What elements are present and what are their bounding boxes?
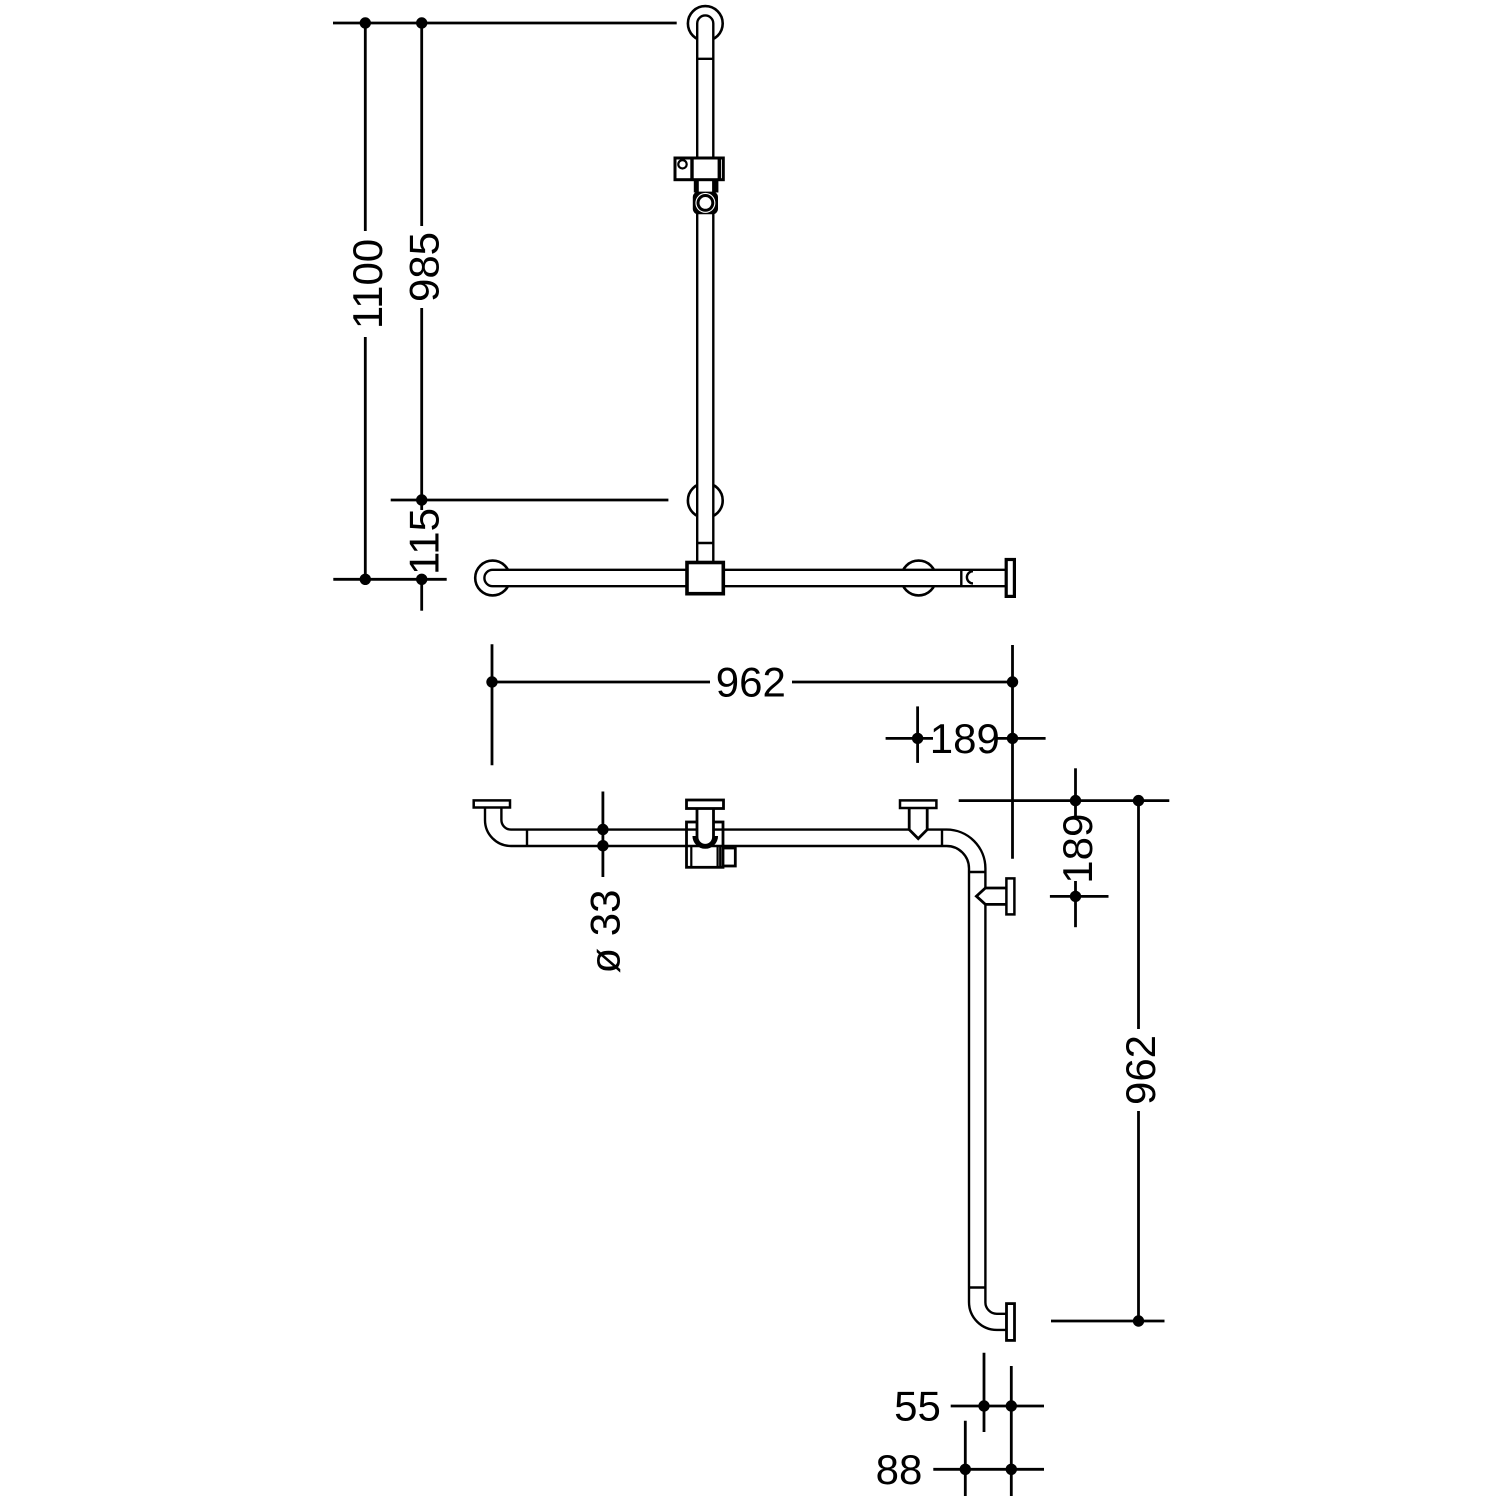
rail joint line above bottom elbow — [969, 1286, 985, 1288]
shower head holder body — [675, 158, 723, 180]
side wall bracket plate (plan) — [1006, 878, 1014, 914]
L-shaped rail tube (plan) — [485, 808, 1007, 1330]
svg-text:189: 189 — [930, 715, 1000, 762]
svg-text:88: 88 — [876, 1446, 923, 1493]
side wall bracket pin (plan) — [976, 888, 1006, 904]
svg-text:985: 985 — [400, 232, 447, 302]
svg-text:962: 962 — [1117, 1035, 1164, 1105]
svg-text:115: 115 — [400, 508, 447, 575]
dimension line 189 vertical — [1050, 768, 1109, 927]
dimension line 962 top — [486, 676, 1018, 687]
dimension line 1100 — [360, 17, 371, 585]
extension line at rail top level — [391, 499, 669, 502]
dimension line 962 vertical — [1133, 795, 1144, 1327]
rail joint line below corner — [969, 871, 985, 873]
wall flange circle on horizontal rail — [901, 561, 936, 596]
extension tick at rail centerline — [333, 578, 446, 581]
holder swivel joint — [693, 192, 718, 215]
horizontal rail inner tube cap arc — [967, 571, 973, 583]
bottom wall plate (plan) — [1007, 1304, 1015, 1341]
holder neck bars — [694, 180, 719, 193]
dimension line 115 — [416, 500, 427, 611]
dimension line 88 — [933, 1421, 1044, 1496]
vertical rail tube — [697, 15, 713, 562]
dimension line 985 — [416, 17, 427, 505]
vertical rail joint line (above T) — [697, 542, 713, 544]
horizontal rail joint line — [960, 570, 962, 586]
extension line left of 962 — [491, 644, 494, 765]
vertical rail joint line (top) — [697, 58, 713, 60]
svg-text:ø 33: ø 33 — [581, 889, 628, 973]
extension line bottom plate — [1051, 1320, 1165, 1323]
T-junction box — [687, 563, 723, 594]
extension line wall plane right — [959, 799, 1170, 802]
svg-text:1100: 1100 — [344, 239, 391, 329]
svg-text:962: 962 — [716, 659, 786, 706]
dimension line diameter 33 — [597, 792, 608, 878]
holder top plate (plan) — [687, 800, 724, 809]
left wall plate (plan) — [474, 800, 510, 807]
holder body (plan) — [687, 822, 724, 867]
mid wall bracket stem with point (plan) — [909, 808, 927, 839]
svg-text:55: 55 — [894, 1383, 941, 1430]
rail joint line near left elbow — [526, 830, 528, 846]
svg-text:189: 189 — [1054, 814, 1101, 884]
extension line right of 962 — [1011, 645, 1014, 859]
mid wall flange circle on vertical rail — [688, 483, 723, 518]
mid wall bracket plate (plan) — [900, 800, 936, 808]
holder right block (plan) — [723, 848, 735, 866]
horizontal rail tube — [484, 570, 1006, 586]
dimension line 189 horizontal — [886, 706, 1046, 763]
right wall plate (side view) — [1006, 560, 1014, 597]
extension line top — [333, 22, 677, 25]
left wall flange circle of horizontal rail — [475, 561, 510, 596]
dimension line 55 — [951, 1353, 1044, 1496]
top wall flange circle — [688, 6, 723, 41]
rail joint line before corner — [941, 830, 943, 846]
holder clamp dark arc (plan) — [692, 836, 718, 849]
holder stem (plan) — [697, 806, 714, 845]
